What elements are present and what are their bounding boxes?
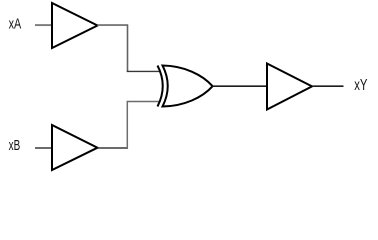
wire U1 output segment	[98, 24, 129, 26]
buffer U4	[267, 64, 312, 110]
wire U4 output	[312, 85, 344, 87]
svg-text:xY: xY	[354, 77, 367, 94]
wire into XOR top input	[127, 70, 161, 72]
wire into XOR bottom input	[127, 101, 161, 103]
xor gate U3 body	[163, 66, 213, 107]
wire xA input	[35, 24, 51, 26]
wire XOR output to buffer U4	[213, 85, 267, 87]
wire vertical segment top route	[127, 25, 129, 71]
svg-text:xA: xA	[9, 16, 22, 33]
buffer U1	[52, 3, 98, 48]
buffer U2	[52, 125, 98, 170]
wire vertical segment bottom route	[126, 102, 128, 149]
svg-text:xB: xB	[9, 137, 21, 154]
xor gate U3 input arc	[158, 66, 163, 107]
wire xB input	[35, 147, 52, 149]
wire U2 output segment	[98, 147, 129, 149]
